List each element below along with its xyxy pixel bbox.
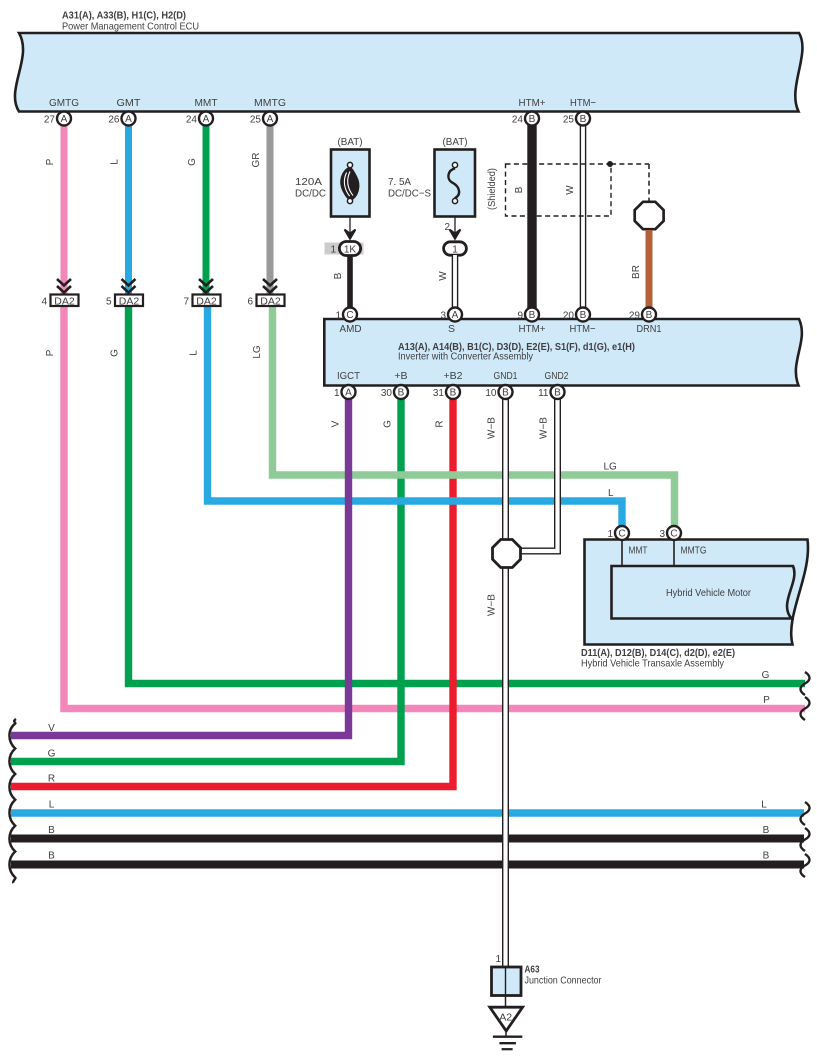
pin 24 B HTM+ (512, 112, 539, 126)
svg-text:Junction Connector: Junction Connector (525, 976, 603, 987)
svg-text:+B2: +B2 (444, 370, 463, 382)
svg-text:1: 1 (452, 245, 458, 256)
svg-text:R: R (48, 774, 55, 785)
connector 1K with gray tag 1 (325, 242, 364, 256)
connector DA2 6 (247, 295, 284, 308)
motor stub MMT (621, 540, 623, 567)
svg-text:L: L (761, 800, 767, 811)
svg-text:24: 24 (512, 115, 524, 126)
wire W-B GND2 down-left into shield octagon (519, 399, 558, 551)
svg-text:DC/DC−S: DC/DC−S (388, 188, 431, 200)
svg-text:B: B (333, 272, 344, 279)
svg-text:+B: +B (394, 370, 407, 382)
svg-text:4: 4 (41, 297, 47, 308)
svg-text:W−B: W−B (539, 417, 550, 439)
svg-text:G: G (110, 349, 121, 357)
arrow into DA2 5 (122, 279, 136, 293)
svg-text:G: G (762, 670, 770, 681)
wire G below DA2 down then right to right edge (129, 305, 806, 684)
wire G2 green from +B down then left to edge (11, 399, 401, 762)
svg-text:11: 11 (538, 388, 549, 399)
svg-text:DA2: DA2 (54, 296, 75, 308)
svg-text:B: B (554, 388, 561, 399)
pin 9 B HTM+ (517, 308, 539, 322)
svg-text:1: 1 (335, 311, 341, 322)
svg-text:GR: GR (251, 153, 262, 168)
svg-text:LG: LG (604, 462, 618, 473)
svg-text:A: A (345, 388, 352, 399)
svg-text:BR: BR (631, 265, 642, 279)
svg-text:B: B (450, 388, 457, 399)
svg-text:P: P (763, 695, 770, 706)
svg-text:HTM+: HTM+ (519, 323, 546, 335)
bus B full width black lower (11, 861, 804, 869)
svg-text:Inverter with Converter Assemb: Inverter with Converter Assembly (398, 351, 534, 363)
svg-text:MMT: MMT (195, 97, 219, 109)
torn edge right L (801, 802, 810, 825)
pin 3 A S (440, 308, 462, 322)
wire GR MMTG gray vertical to DA2 (267, 121, 274, 296)
svg-text:A: A (203, 114, 210, 125)
wire B thick black HTM+ (527, 121, 536, 310)
svg-text:A: A (125, 114, 132, 125)
svg-text:W: W (565, 185, 576, 195)
torn edge right P (801, 697, 810, 720)
svg-text:3: 3 (440, 311, 446, 322)
motor stub MMTG (673, 540, 675, 567)
pin 29 B DRN1 (629, 308, 656, 322)
svg-text:25: 25 (563, 115, 575, 126)
svg-text:GMTG: GMTG (49, 97, 79, 109)
torn edge left buses (9, 719, 16, 883)
shielded dashed box (506, 161, 650, 216)
wire W white double to S pin (452, 255, 459, 310)
svg-text:G: G (383, 420, 394, 428)
svg-text:DA2: DA2 (119, 296, 140, 308)
svg-text:GND1: GND1 (494, 370, 518, 382)
wire B black 1K to AMD (347, 255, 353, 310)
inverter band: Inverter with Converter Assembly (324, 319, 802, 386)
svg-text:G: G (48, 749, 56, 760)
bus L full width blue (11, 809, 804, 816)
pin 11 B GND2 (538, 385, 564, 399)
pin 26 A GMT (108, 112, 135, 126)
svg-text:P: P (45, 158, 56, 165)
connector DA2 7 (183, 295, 220, 308)
svg-text:2: 2 (444, 222, 450, 233)
bus B full width black upper (11, 835, 804, 843)
torn edge right G (801, 672, 810, 695)
svg-text:27: 27 (44, 115, 56, 126)
svg-text:MMT: MMT (629, 545, 648, 557)
svg-text:1K: 1K (344, 245, 357, 256)
svg-text:1: 1 (607, 529, 613, 540)
svg-text:(BAT): (BAT) (443, 136, 468, 148)
svg-text:3: 3 (659, 529, 665, 540)
torn edge right B upper (801, 828, 810, 851)
pin 1 C AMD (335, 308, 357, 322)
arrow into DA2 6 (263, 279, 277, 293)
hybrid vehicle motor box (612, 540, 795, 619)
svg-text:B: B (580, 310, 587, 321)
svg-text:L: L (110, 159, 121, 165)
svg-text:5: 5 (106, 297, 112, 308)
wire P GMTG pink vertical to DA2 (61, 121, 68, 296)
svg-text:Hybrid Vehicle Motor: Hybrid Vehicle Motor (666, 587, 751, 599)
svg-text:DA2: DA2 (260, 296, 281, 308)
svg-text:A: A (267, 114, 274, 125)
wire to ground (505, 996, 507, 1009)
pin 20 B HTM- (563, 308, 590, 322)
svg-text:B: B (502, 388, 509, 399)
wire W white double HTM- (580, 121, 587, 310)
arrow into DA2 7 (199, 279, 213, 293)
svg-text:29: 29 (629, 311, 641, 322)
svg-text:6: 6 (247, 297, 253, 308)
pin 1 C MMT (607, 526, 629, 540)
svg-text:1: 1 (334, 388, 340, 399)
svg-text:20: 20 (563, 311, 575, 322)
shield octagon DRN1 (635, 202, 664, 229)
svg-text:MMTG: MMTG (681, 545, 707, 557)
svg-text:V: V (331, 420, 342, 427)
svg-text:R: R (435, 420, 446, 427)
svg-text:V: V (48, 723, 55, 734)
fuse 120A DC/DC (295, 136, 370, 217)
fuse 7.5A DC/DC-S (388, 136, 475, 217)
svg-text:L: L (49, 800, 55, 811)
ground A2 triangle (490, 1007, 523, 1031)
pin 25 B HTM- (563, 112, 590, 126)
wire W-B GND1 down through octagon to A63 (502, 399, 509, 967)
ECU band: Power Management Control ECU (15, 33, 803, 112)
pin 31 B +B2 (433, 385, 460, 399)
svg-text:LG: LG (252, 345, 263, 359)
svg-text:30: 30 (381, 388, 393, 399)
pin 10 B GND1 (485, 385, 512, 399)
pin 27 A GMTG (44, 112, 71, 126)
svg-text:A63: A63 (525, 965, 540, 976)
svg-text:P: P (45, 349, 56, 356)
fuse2 output line + label 2 + arrow (444, 217, 460, 239)
svg-text:C: C (618, 529, 625, 540)
pin 30 B +B (381, 385, 408, 399)
svg-text:B: B (763, 851, 770, 862)
svg-text:7. 5A: 7. 5A (388, 176, 411, 188)
svg-text:GND2: GND2 (545, 370, 569, 382)
svg-text:B: B (48, 825, 55, 836)
svg-text:B: B (514, 186, 525, 193)
wire V purple from IGCT down then left to edge (11, 399, 349, 736)
svg-text:DRN1: DRN1 (637, 323, 662, 335)
svg-text:A2: A2 (499, 1012, 512, 1024)
svg-text:C: C (346, 310, 353, 321)
svg-text:B: B (646, 310, 653, 321)
svg-text:120A: 120A (295, 176, 322, 188)
svg-text:B: B (580, 114, 587, 125)
arrow into DA2 4 (57, 279, 71, 293)
svg-text:HTM+: HTM+ (519, 97, 546, 109)
svg-text:MMTG: MMTG (254, 97, 286, 109)
svg-text:B: B (398, 388, 405, 399)
svg-text:10: 10 (485, 388, 497, 399)
svg-text:HTM−: HTM− (570, 97, 596, 109)
svg-text:W−B: W−B (487, 594, 498, 616)
svg-text:DC/DC: DC/DC (295, 188, 326, 200)
wire P below DA2 down then right to right edge (64, 305, 805, 709)
svg-text:L: L (608, 488, 614, 499)
wire G MMT green vertical to DA2 (203, 121, 210, 296)
svg-text:Power Management Control ECU: Power Management Control ECU (62, 21, 199, 33)
svg-text:L: L (189, 350, 200, 356)
svg-text:DA2: DA2 (196, 296, 217, 308)
wire BR brown to DRN1 (646, 230, 653, 310)
svg-text:HTM−: HTM− (570, 323, 596, 335)
svg-text:26: 26 (108, 115, 120, 126)
svg-text:9: 9 (517, 311, 523, 322)
pin 3 C MMTG (659, 526, 681, 540)
svg-text:GMT: GMT (117, 97, 142, 109)
svg-text:(Shielded): (Shielded) (487, 168, 498, 210)
svg-text:Hybrid Vehicle Transaxle Assem: Hybrid Vehicle Transaxle Assembly (581, 658, 725, 670)
svg-text:AMD: AMD (340, 323, 362, 335)
svg-text:C: C (670, 529, 677, 540)
svg-text:25: 25 (250, 115, 262, 126)
svg-text:7: 7 (183, 297, 189, 308)
transaxle band: Hybrid Vehicle Transaxle Assembly (585, 540, 809, 645)
svg-text:B: B (529, 114, 536, 125)
junction connector A63 (492, 954, 603, 996)
wire LG from DA2 down right down to MMTG pin (273, 305, 675, 528)
torn edge right B lower (801, 854, 810, 877)
svg-text:1: 1 (330, 245, 336, 256)
shield junction octagon (493, 540, 521, 568)
connector oval 1 (444, 242, 467, 256)
wire R red from +B2 down then left to edge (11, 399, 453, 787)
svg-text:S: S (448, 323, 455, 335)
pin 24 A MMT (186, 112, 213, 126)
connector DA2 5 (106, 295, 143, 308)
svg-text:31: 31 (433, 388, 445, 399)
svg-text:IGCT: IGCT (337, 370, 361, 382)
svg-text:W: W (438, 271, 449, 281)
svg-text:1: 1 (495, 954, 501, 965)
svg-text:W−B: W−B (487, 417, 498, 439)
svg-text:B: B (529, 310, 536, 321)
ground hatch symbol (493, 1031, 522, 1049)
svg-text:B: B (48, 851, 55, 862)
pin 1 A IGCT (334, 385, 356, 399)
svg-text:(BAT): (BAT) (338, 136, 363, 148)
svg-text:A: A (452, 310, 459, 321)
svg-text:G: G (187, 158, 198, 166)
wire L blue from DA2 down right down to MMT pin (208, 305, 623, 528)
svg-text:B: B (763, 825, 770, 836)
svg-text:A: A (61, 114, 68, 125)
connector DA2 4 (41, 295, 78, 308)
fuse output line + arrow to 1K (345, 217, 356, 239)
svg-text:24: 24 (186, 115, 198, 126)
wire L GMT blue vertical to DA2 (125, 121, 132, 296)
pin 25 A MMTG (250, 112, 277, 126)
